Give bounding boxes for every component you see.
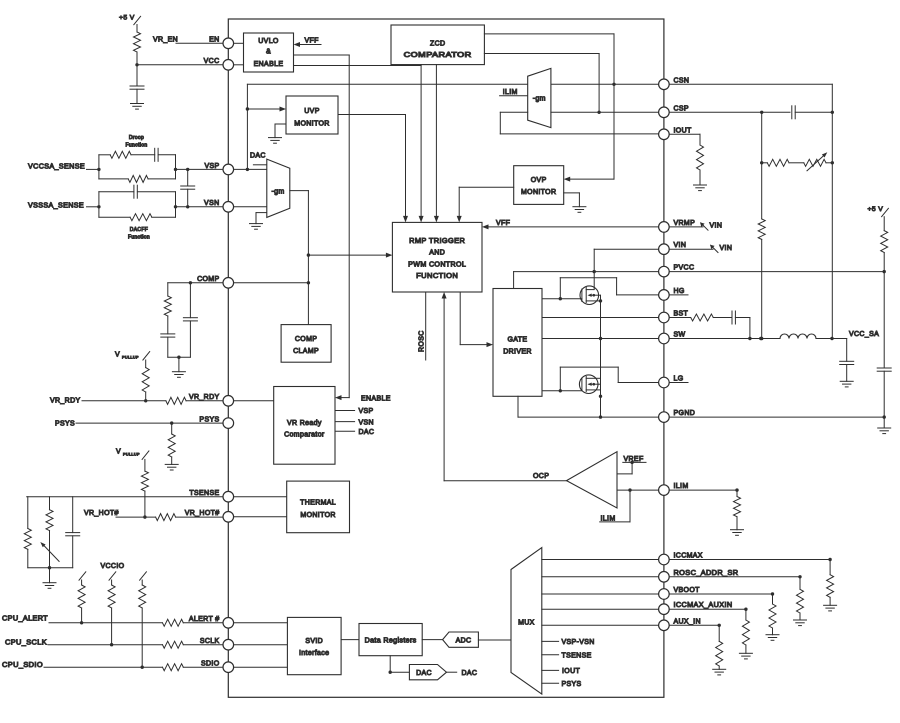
- wire DACFF network to VSN pin: [176, 206, 224, 208]
- svg-text:TSENSE: TSENSE: [562, 653, 592, 660]
- block RMP TRIGGER AND PWM CONTROL FUNCTION: [392, 222, 482, 292]
- wire ZCD to PWM trigger (left): [419, 65, 424, 223]
- wire DAC output: [447, 670, 478, 677]
- wire VR_EN to EN pin: [153, 36, 223, 43]
- wire OCP comparator output to PWM bottom: [442, 292, 567, 481]
- wire MUX to ICCMAX pin: [542, 559, 659, 561]
- wire UVP output to PWM trigger: [338, 115, 408, 223]
- svg-text:MONITOR: MONITOR: [294, 120, 329, 127]
- multiplexer MUX: [511, 548, 542, 695]
- svg-text:PSYS: PSYS: [199, 417, 219, 424]
- svg-text:UVLO: UVLO: [258, 38, 279, 45]
- label VCCIO: [101, 563, 125, 570]
- capacitor (VCC_SA output): [840, 339, 854, 382]
- wire CPU_ALERT: [2, 616, 163, 625]
- wire MUX to ICCMAX_AUXIN pin: [542, 608, 659, 610]
- resistor (BST): [691, 314, 732, 321]
- resistor (ICCMAX): [827, 575, 834, 606]
- block VR Ready Comparator: [274, 387, 335, 465]
- wire PVCC external rail: [669, 271, 884, 273]
- wire VBOOT external: [669, 592, 774, 604]
- +5V supply marker (top-left): [119, 15, 141, 25]
- svg-text:COMP: COMP: [197, 276, 219, 283]
- svg-text:CLAMP: CLAMP: [293, 348, 319, 355]
- svg-text:IOUT: IOUT: [674, 127, 692, 134]
- wire AUX_IN external: [669, 624, 721, 642]
- svg-text:SDIO: SDIO: [201, 661, 220, 668]
- svg-text:LG: LG: [674, 376, 684, 383]
- ground (VCC decoupling): [131, 104, 144, 110]
- svg-text:RMP TRIGGER: RMP TRIGGER: [409, 238, 465, 245]
- svg-text:VRMP: VRMP: [674, 220, 696, 227]
- capacitor (droop, upper): [131, 148, 176, 169]
- svg-text:Droop: Droop: [129, 135, 144, 141]
- resistor (ILIM): [734, 497, 741, 530]
- svg-text:+5 V: +5 V: [119, 15, 135, 22]
- label Droop Function: [126, 135, 148, 149]
- svg-text:Comparator: Comparator: [284, 432, 325, 439]
- wire ICCMAX_AUXIN external: [669, 608, 747, 621]
- svg-text:VCCSA_SENSE: VCCSA_SENSE: [28, 164, 85, 171]
- VFF input from VRMP pin: [482, 220, 659, 229]
- svg-text:CPU_ALERT: CPU_ALERT: [2, 616, 48, 623]
- label VCC_SA: [849, 331, 879, 338]
- ground (AUX_IN): [713, 669, 726, 675]
- resistor (PSYS pulldown): [168, 423, 175, 464]
- resistor (ALERT# series): [163, 619, 224, 626]
- wire VSP pin to gm amp: [234, 168, 267, 170]
- thermistor (variable resistor): [39, 497, 59, 568]
- wire high-side source to SW net: [599, 295, 602, 340]
- pin BST: [659, 311, 689, 323]
- pin ALERT #: [189, 616, 234, 628]
- svg-text:OVP: OVP: [531, 177, 547, 184]
- resistor (DACFF, lower): [99, 205, 177, 221]
- wire ZCD output to OVP input (via CSN node): [484, 34, 615, 182]
- svg-text:CSP: CSP: [674, 105, 689, 112]
- wire BST pin to gate driver: [542, 317, 659, 319]
- resistor (VR_HOT# series): [156, 514, 223, 521]
- svg-text:VR_RDY: VR_RDY: [50, 398, 81, 405]
- svg-text:DAC: DAC: [416, 670, 432, 677]
- VRMP pin label and VIN marker: [669, 222, 722, 230]
- svg-text:ICCMAX: ICCMAX: [674, 553, 703, 560]
- wire VR_HOT# pin to thermal monitor: [234, 516, 287, 518]
- wire PGND external: [669, 416, 884, 418]
- svg-text:-gm: -gm: [271, 188, 284, 195]
- wire ICCMAX external: [669, 558, 832, 575]
- wire SW net to low-side drain / source to PGND: [599, 339, 602, 419]
- capacitor (DACFF, upper): [99, 185, 176, 207]
- block GATE DRIVER: [493, 289, 542, 397]
- pin TSENSE: [189, 490, 233, 502]
- svg-text:VR Ready: VR Ready: [287, 420, 322, 427]
- svg-text:AND: AND: [429, 250, 445, 257]
- capacitor (COMP): [183, 283, 197, 357]
- comparator OCP: [533, 452, 617, 508]
- pin PSYS: [199, 417, 233, 429]
- resistor (SDIO pullup): [139, 572, 147, 667]
- MUX input IOUT: [542, 668, 581, 675]
- svg-text:VSN: VSN: [359, 419, 374, 426]
- wire Data Registers to DAC: [389, 656, 410, 674]
- wire VSSSA_SENSE input: [28, 202, 101, 209]
- wire ALERT# pin to SVID interface: [234, 622, 288, 624]
- LG pin stub: [669, 382, 688, 384]
- svg-text:VR_EN: VR_EN: [153, 36, 178, 43]
- ground (UVP): [269, 124, 287, 143]
- MUX input TSENSE: [542, 653, 592, 660]
- block UVLO & ENABLE: [244, 33, 294, 72]
- wire gm output to COMP / PWM: [290, 191, 310, 325]
- wire MUX to ROSC_ADDR_SR pin: [542, 576, 659, 578]
- pullup V supply (VR_HOT#): [116, 449, 149, 460]
- wire TSENSE net: [27, 496, 223, 498]
- wire gm to CSP pin: [551, 111, 659, 113]
- svg-text:DAC: DAC: [359, 429, 375, 436]
- resistor (+5V to PVCC): [881, 217, 888, 274]
- resistor (ROSC_ADDR_SR): [797, 589, 804, 620]
- wire ILIM external: [669, 488, 739, 496]
- wire VCC pin to UVLO: [234, 64, 244, 66]
- capacitor (BST bootstrap): [732, 311, 752, 340]
- pin VR_RDY: [189, 394, 234, 406]
- VREF input (OCP): [617, 456, 646, 474]
- wire PVCC to gate driver: [514, 270, 659, 289]
- pin SCLK: [200, 638, 234, 650]
- pullup V supply (VR_RDY): [115, 352, 150, 361]
- resistor (droop, upper): [99, 151, 131, 169]
- wire Data Registers to ADC: [422, 639, 442, 641]
- DAC input to gm amp: [250, 152, 267, 164]
- svg-text:CPU_SDIO: CPU_SDIO: [2, 662, 43, 669]
- ground (ICCMAX): [824, 605, 837, 611]
- wire VR_RDY pin to comparator: [234, 400, 274, 402]
- wire COMP node to PWM trigger input: [308, 253, 392, 258]
- pin COMP: [197, 276, 234, 288]
- svg-text:BST: BST: [674, 311, 689, 318]
- svg-text:VIN: VIN: [710, 223, 723, 230]
- VIN pin label and VIN marker: [669, 245, 732, 253]
- svg-text:ALERT #: ALERT #: [189, 616, 220, 623]
- capacitor (VCC decoupling): [130, 65, 144, 104]
- label ENABLE: [361, 395, 391, 402]
- svg-text:PSYS: PSYS: [562, 681, 582, 688]
- wire SVID to Data Registers: [341, 639, 359, 641]
- svg-text:PWM CONTROL: PWM CONTROL: [408, 261, 466, 268]
- svg-text:VSP: VSP: [359, 408, 374, 415]
- pin PVCC: [659, 265, 695, 277]
- wire HG pin loop: [560, 278, 658, 299]
- svg-text:GATE: GATE: [508, 337, 528, 344]
- ground (ICCMAX_AUXIN): [739, 653, 752, 659]
- pin AUX_IN: [659, 618, 701, 630]
- ground (gm amp): [250, 213, 267, 230]
- capacitor (VSP-VSN): [181, 169, 195, 208]
- pin HG: [659, 288, 685, 300]
- svg-text:VCC: VCC: [204, 58, 220, 65]
- wire CSN external: [669, 84, 832, 338]
- wire MUX to AUX_IN pin: [542, 624, 659, 626]
- resistor (SCLK series): [163, 641, 224, 648]
- pin ICCMAX_AUXIN: [659, 602, 733, 614]
- pin PGND: [659, 410, 696, 422]
- ground (thermistor network): [28, 566, 73, 588]
- resistor (droop, lower): [99, 168, 177, 183]
- pin VSP: [204, 163, 233, 175]
- wire PSYS external: [55, 420, 223, 427]
- svg-text:FUNCTION: FUNCTION: [416, 273, 458, 280]
- svg-text:THERMAL: THERMAL: [300, 500, 336, 507]
- wire droop network to VSP pin: [176, 168, 224, 171]
- wire BST external: [669, 317, 691, 319]
- resistor (SDIO series): [163, 664, 224, 671]
- wire UVLO output to ENABLE (VR Ready Comparator): [294, 55, 350, 400]
- svg-text:UVP: UVP: [304, 108, 319, 115]
- block COMP CLAMP: [281, 325, 331, 363]
- svg-text:ILIM: ILIM: [601, 515, 616, 522]
- wire gate driver to low-side gate: [542, 389, 582, 392]
- +5V supply marker (right): [868, 206, 889, 217]
- pin LG: [659, 376, 684, 388]
- svg-text:PSYS: PSYS: [55, 420, 75, 427]
- capacitor (thermistor filter): [66, 497, 80, 568]
- ground (OVP): [564, 193, 586, 212]
- wire CPU_SDIO: [2, 662, 163, 669]
- svg-text:HG: HG: [674, 288, 685, 295]
- svg-text:CSN: CSN: [674, 77, 690, 84]
- inductor (output): [780, 334, 847, 340]
- svg-text:-gm: -gm: [533, 96, 546, 103]
- wire MUX to VBOOT pin: [542, 593, 659, 595]
- block ADC: [443, 632, 479, 647]
- block OVP MONITOR: [514, 166, 564, 205]
- svg-text:SCLK: SCLK: [200, 638, 220, 645]
- svg-text:VFF: VFF: [305, 38, 319, 45]
- svg-text:DACFF: DACFF: [130, 227, 148, 233]
- svg-text:ILIM: ILIM: [674, 483, 689, 490]
- wire VIN pin to high-side FET drain: [594, 249, 658, 289]
- svg-text:ICCMAX_AUXIN: ICCMAX_AUXIN: [674, 602, 733, 609]
- svg-text:MONITOR: MONITOR: [521, 189, 556, 196]
- svg-text:ILIM: ILIM: [503, 89, 518, 96]
- svg-text:DAC: DAC: [250, 152, 266, 159]
- wire SDIO pin to SVID interface: [234, 666, 288, 668]
- svg-text:DRIVER: DRIVER: [503, 349, 532, 356]
- svg-text:VR_HOT#: VR_HOT#: [84, 510, 119, 517]
- svg-text:+5 V: +5 V: [868, 206, 884, 213]
- ground (PGND): [878, 417, 891, 434]
- svg-text:PVCC: PVCC: [674, 265, 695, 272]
- svg-text:VR_HOT#: VR_HOT#: [185, 510, 220, 517]
- svg-text:VCCIO: VCCIO: [101, 563, 125, 570]
- ROSC stub: [419, 292, 426, 360]
- transistor Q2 (low-side MOSFET): [579, 375, 600, 394]
- svg-text:VCC_SA: VCC_SA: [849, 331, 879, 338]
- DAC stub (VR Ready): [335, 429, 374, 436]
- pin IOUT: [659, 127, 692, 139]
- svg-text:COMP: COMP: [295, 336, 317, 343]
- capacitor (PVCC): [877, 272, 891, 419]
- svg-text:DAC: DAC: [462, 670, 478, 677]
- svg-text:VR_RDY: VR_RDY: [189, 394, 220, 401]
- pin CSP: [659, 105, 689, 117]
- block ZCD COMPARATOR: [391, 25, 484, 65]
- pin ICCMAX: [659, 553, 703, 565]
- ground (COMP network): [168, 356, 191, 378]
- resistor+capacitor (COMP compensation): [161, 283, 175, 357]
- pin VCC: [204, 58, 234, 70]
- VSN stub (VR Ready): [335, 419, 374, 426]
- svg-text:PGND: PGND: [674, 410, 696, 417]
- wire ZCD to PWM trigger (right): [434, 65, 439, 223]
- wire CSN node to UVP input: [246, 107, 286, 112]
- HG pin stub: [669, 294, 688, 296]
- svg-text:AUX_IN: AUX_IN: [674, 618, 701, 625]
- MUX input PSYS: [542, 681, 582, 688]
- svg-text:Function: Function: [126, 143, 148, 149]
- svg-text:SW: SW: [674, 332, 686, 339]
- svg-text:SVID: SVID: [305, 638, 323, 645]
- svg-text:VFF: VFF: [496, 220, 510, 227]
- svg-text:ADC: ADC: [456, 638, 472, 645]
- svg-text:COMPARATOR: COMPARATOR: [404, 52, 472, 59]
- svg-text:ENABLE: ENABLE: [254, 61, 284, 68]
- svg-text:ROSC_ADDR_SR: ROSC_ADDR_SR: [674, 570, 739, 577]
- wire VR_HOT# external: [84, 510, 156, 517]
- ground (VCC_SA): [840, 381, 853, 387]
- wire VCCSA_SENSE input: [28, 164, 101, 171]
- pin EN: [209, 37, 234, 49]
- pin VR_HOT#: [185, 510, 234, 522]
- resistor (VBOOT): [769, 604, 776, 635]
- pin SW: [659, 332, 686, 344]
- resistor (VR_HOT# pullup): [141, 459, 148, 518]
- svg-text:PULLUP: PULLUP: [122, 356, 139, 360]
- svg-text:ENABLE: ENABLE: [361, 395, 391, 402]
- svg-text:Interface: Interface: [299, 650, 329, 657]
- wire UVLO output to PWM: [294, 65, 422, 67]
- op-amp gm (error amplifier): [267, 159, 290, 217]
- IC boundary (chip outline): [228, 19, 664, 697]
- pin CSN: [659, 77, 690, 89]
- svg-text:VIN: VIN: [720, 245, 733, 252]
- resistor (SCLK pullup): [108, 572, 116, 645]
- resistor (IOUT): [697, 145, 704, 185]
- ILIM input to gm current amp: [500, 89, 528, 96]
- wire ROSC_ADDR_SR external: [669, 575, 802, 589]
- wire CSP external: [669, 111, 790, 114]
- svg-text:PULLUP: PULLUP: [123, 453, 140, 457]
- wire gate driver to high-side gate: [542, 297, 582, 300]
- svg-text:VIN: VIN: [674, 242, 687, 249]
- ground (PSYS): [165, 464, 178, 470]
- svg-text:&: &: [266, 49, 271, 56]
- svg-text:VSP-VSN: VSP-VSN: [562, 639, 595, 646]
- svg-text:VBOOT: VBOOT: [674, 587, 701, 594]
- svg-text:VSP: VSP: [204, 163, 219, 170]
- wire ZCD output to CSP node: [484, 54, 600, 115]
- resistor (CSP branch): [758, 219, 765, 240]
- wire CSN internal net: [246, 84, 659, 171]
- transistor Q1 (high-side MOSFET): [580, 286, 601, 305]
- block UVP MONITOR: [286, 96, 338, 134]
- svg-text:Function: Function: [128, 235, 150, 241]
- svg-text:OCP: OCP: [533, 473, 549, 480]
- wire VSN pin to gm amp: [234, 206, 267, 208]
- pin ROSC_ADDR_SR: [659, 570, 739, 582]
- svg-text:VSN: VSN: [204, 200, 219, 207]
- pin VRMP: [659, 220, 696, 232]
- VSP stub (VR Ready): [335, 408, 374, 415]
- resistor (sense network): [762, 159, 804, 166]
- svg-text:CPU_SCLK: CPU_SCLK: [5, 640, 47, 647]
- pin VSN: [204, 200, 234, 212]
- wire ILIM pin to OCP: [617, 488, 659, 491]
- block THERMAL MONITOR: [287, 481, 350, 533]
- wire COMP pin to PWM node: [234, 282, 309, 284]
- pin SDIO: [201, 661, 234, 673]
- block SVID Interface: [287, 617, 341, 674]
- block DAC: [409, 665, 446, 680]
- svg-text:VSSSA_SENSE: VSSSA_SENSE: [28, 202, 84, 209]
- variable resistor (sense network): [804, 151, 834, 171]
- MUX input VSP-VSN: [542, 639, 595, 646]
- wire PWM output to gate driver: [460, 292, 493, 347]
- svg-text:ROSC: ROSC: [419, 330, 426, 352]
- wire SCLK pin to SVID interface: [234, 644, 288, 646]
- ground (ROSC_ADDR_SR): [794, 620, 807, 626]
- svg-text:MUX: MUX: [518, 619, 535, 626]
- ILIM label stub (OCP): [600, 490, 630, 522]
- svg-text:EN: EN: [209, 37, 219, 44]
- svg-text:V: V: [115, 352, 120, 359]
- capacitor (CSP-CSN): [792, 106, 834, 119]
- VFF input arrow into UVLO: [294, 38, 322, 47]
- wire EN pin to UVLO: [234, 42, 244, 44]
- resistor (VR_RDY series): [166, 397, 223, 404]
- wire COMP pin network: [168, 281, 223, 284]
- wire OVP output to PWM trigger: [457, 187, 514, 222]
- resistor (ICCMAX_AUXIN): [742, 620, 749, 653]
- wire gate driver ground to PGND pin: [518, 396, 659, 417]
- wire VCC node to VCC pin: [135, 63, 223, 66]
- svg-text:Data Registers: Data Registers: [365, 638, 417, 645]
- wire ADC to MUX: [478, 639, 511, 641]
- resistor (ALERT# pullup): [78, 572, 86, 623]
- svg-text:ZCD: ZCD: [430, 41, 445, 48]
- wire gm to IOUT pin: [500, 112, 658, 134]
- wire SW pin to gate driver: [542, 338, 659, 340]
- svg-text:MONITOR: MONITOR: [300, 512, 335, 519]
- pin ILIM: [659, 483, 689, 495]
- wire CPU_SCLK: [5, 640, 163, 647]
- svg-text:IOUT: IOUT: [562, 668, 580, 675]
- wire TSENSE pin to thermal monitor: [234, 496, 287, 498]
- block Data Registers: [359, 624, 422, 656]
- resistor (AUX_IN): [716, 641, 723, 669]
- wire LG pin loop: [560, 367, 658, 391]
- op-amp gm (current sense): [528, 68, 551, 127]
- wire IOUT external: [669, 134, 700, 145]
- ground (IOUT): [694, 185, 707, 191]
- resistor (thermistor branch 1): [24, 497, 31, 568]
- resistor (VR_RDY pullup): [142, 360, 149, 402]
- svg-text:V: V: [116, 449, 121, 456]
- pin VIN: [659, 242, 687, 254]
- svg-text:TSENSE: TSENSE: [189, 490, 219, 497]
- label DACFF Function: [128, 227, 150, 241]
